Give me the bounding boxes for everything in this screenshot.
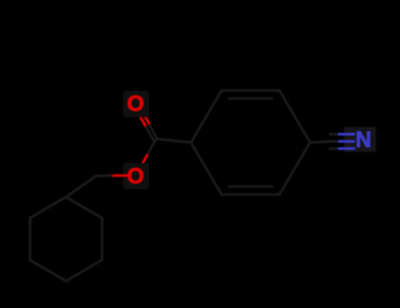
carbonyl C=O double bond, line 1 red half (O side) xyxy=(139,114,147,128)
svg-text:N: N xyxy=(356,127,372,152)
carbonyl C=O double bond, line 2 red half (O side) xyxy=(143,112,150,126)
bond ester O to CH2, red half (O side) xyxy=(110,174,128,177)
bond carbonyl C to ester O, dark half (C side) xyxy=(148,140,155,153)
wire: bond benzene ring right vertex to nitrile C xyxy=(310,141,330,142)
wire: bond carbonyl C to benzene ring left vertex xyxy=(156,139,191,143)
benzene double bond inner line (top edge) xyxy=(229,97,272,100)
cyclohexane ring outline xyxy=(30,197,102,281)
nitrile C#N triple bond, middle line dark half (C side) xyxy=(329,140,338,143)
benzene ring outline xyxy=(191,91,310,195)
bond carbonyl C to ester O, red half (O side) xyxy=(141,153,148,166)
svg-text:O: O xyxy=(127,164,144,189)
svg-text:O: O xyxy=(127,91,144,116)
nitrile C#N triple bond, middle line blue half (N side) xyxy=(338,140,355,143)
bond CH2 to cyclohexane ring xyxy=(66,176,96,197)
jpeg artifact box around carbonyl O xyxy=(123,91,149,117)
bond ester O to CH2, dark half (C side) xyxy=(96,174,112,177)
carbonyl C=O double bond, line 2 dark half (C side) xyxy=(150,125,157,139)
nitrile C#N triple bond, bottom line blue half (N side) xyxy=(338,147,355,150)
jpeg artifact box around ester O xyxy=(123,163,149,189)
benzene double bond inner line (bottom edge) xyxy=(229,185,272,188)
carbonyl C=O double bond, line 1 dark half (C side) xyxy=(146,127,154,141)
nitrile C#N triple bond, top line dark half (C side) xyxy=(329,133,338,136)
jpeg artifact box around nitrile N xyxy=(344,127,376,152)
nitrile C#N triple bond, bottom line dark half (C side) xyxy=(329,147,338,150)
nitrile C#N triple bond, top line blue half (N side) xyxy=(338,133,355,136)
